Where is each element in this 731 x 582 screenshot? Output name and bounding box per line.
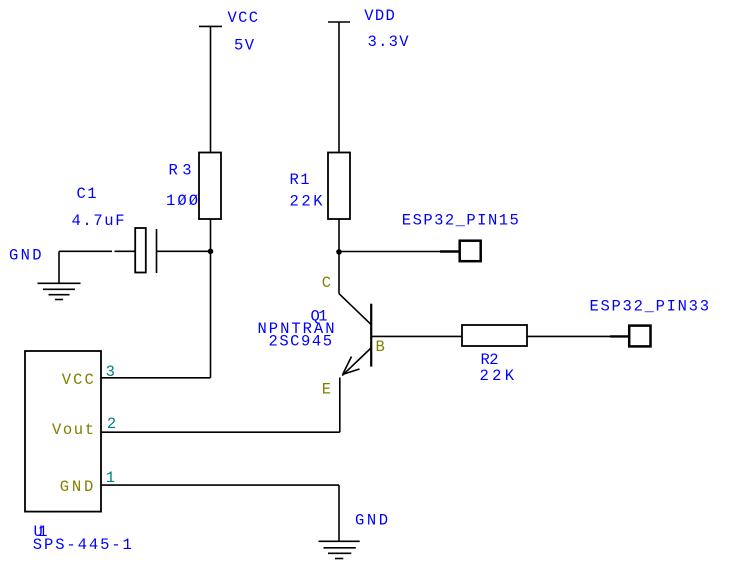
svg-text:2: 2 xyxy=(107,415,117,433)
svg-text:GND: GND xyxy=(9,247,43,265)
svg-text:SPS-445-1: SPS-445-1 xyxy=(33,536,133,554)
svg-text:2SC945: 2SC945 xyxy=(269,333,334,351)
svg-text:ESP32_PIN33: ESP32_PIN33 xyxy=(590,298,711,316)
svg-text:22K: 22K xyxy=(290,193,324,211)
svg-text:VCC: VCC xyxy=(228,9,260,27)
svg-text:R3: R3 xyxy=(169,162,193,180)
svg-text:VCC: VCC xyxy=(62,371,95,389)
svg-text:1: 1 xyxy=(106,469,116,487)
svg-text:3: 3 xyxy=(106,363,116,381)
svg-text:ESP32_PIN15: ESP32_PIN15 xyxy=(402,212,520,230)
svg-text:VDD: VDD xyxy=(364,7,396,25)
svg-text:Vout: Vout xyxy=(52,421,95,439)
svg-text:B: B xyxy=(376,338,386,356)
svg-text:GND: GND xyxy=(355,512,389,530)
svg-text:C: C xyxy=(322,274,332,292)
svg-text:3.3V: 3.3V xyxy=(368,33,410,51)
svg-text:22K: 22K xyxy=(480,367,516,385)
svg-text:C1: C1 xyxy=(77,185,98,203)
svg-text:4.7uF: 4.7uF xyxy=(72,212,126,230)
svg-text:GND: GND xyxy=(60,478,95,496)
svg-text:5V: 5V xyxy=(234,36,255,54)
svg-text:1ØØ: 1ØØ xyxy=(166,192,199,210)
svg-text:E: E xyxy=(322,380,332,398)
svg-text:R1: R1 xyxy=(290,171,311,189)
